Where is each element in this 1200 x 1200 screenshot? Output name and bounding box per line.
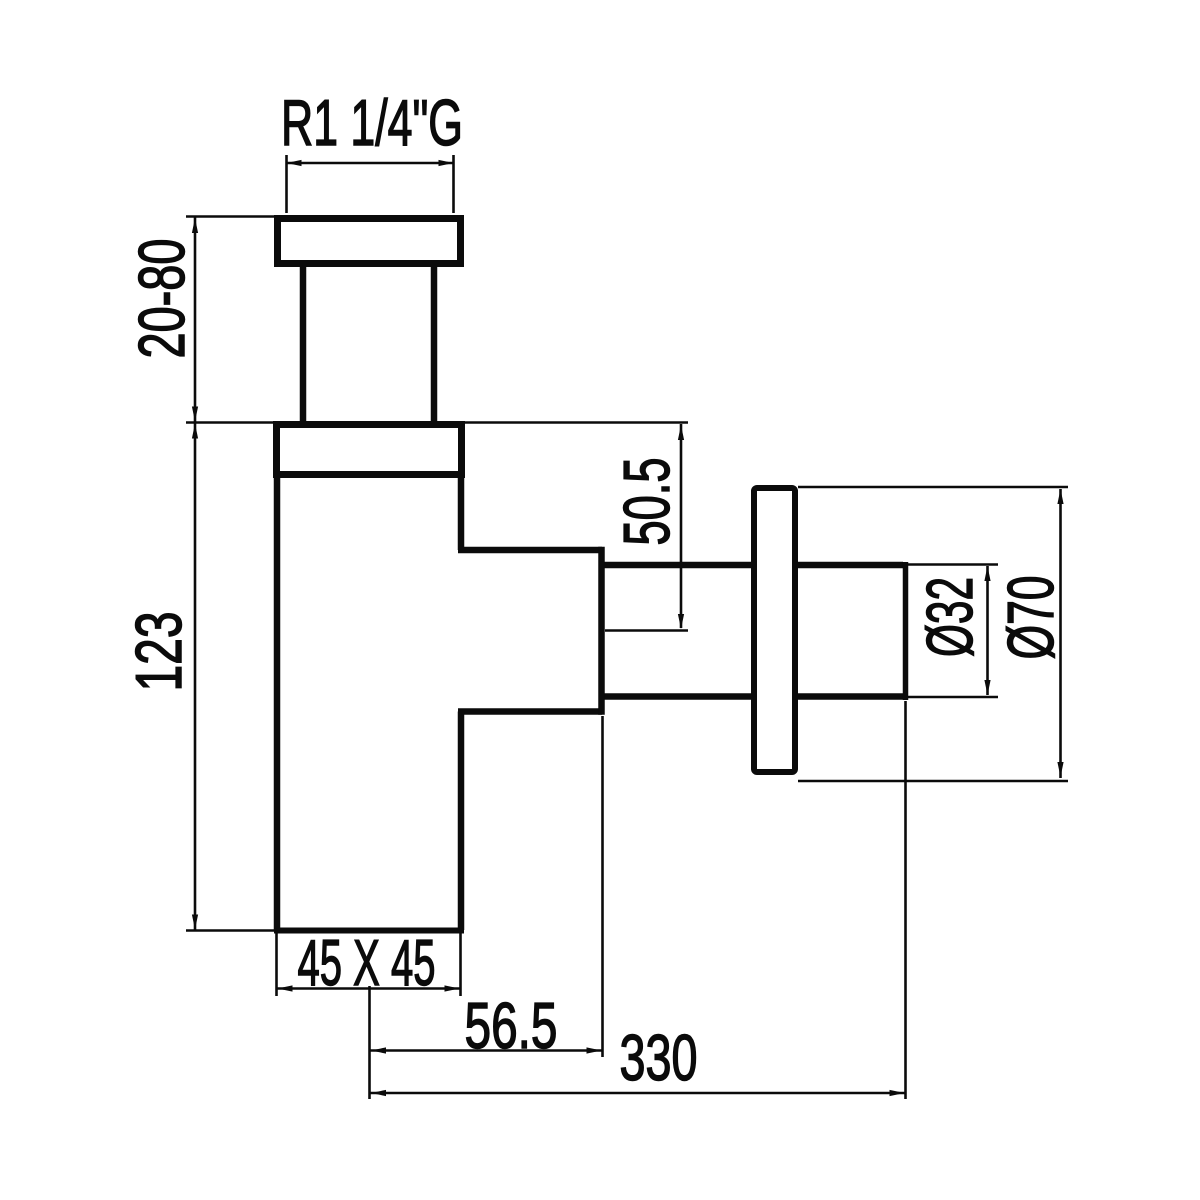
wall flange (escutcheon) — [754, 488, 795, 772]
outlet pipe top edge — [602, 562, 904, 569]
arrow 20-80 down — [192, 407, 198, 422]
svg-text:56.5: 56.5 — [465, 989, 558, 1062]
arrow 50.5 down — [678, 614, 684, 629]
dimension line O70 (vertical) — [1059, 489, 1062, 778]
dimension line 56.5 (horizontal) — [370, 1049, 602, 1052]
svg-text:Ø70: Ø70 — [994, 576, 1067, 660]
extension line pipe bottom (O32 bottom reference) — [908, 696, 998, 699]
body left edge — [274, 474, 281, 930]
extension line body right below (45x45 right reference) — [459, 933, 462, 996]
arrow 45x45 left — [278, 985, 293, 991]
dimension line R1 1/4"G — [287, 162, 454, 165]
extension line wall flange top (O70 top reference) — [798, 486, 1068, 489]
outlet pipe end cap — [903, 562, 909, 700]
arrow 123 down — [192, 915, 198, 930]
arrow 50.5 up — [678, 425, 684, 440]
arrow O32 down — [984, 680, 990, 695]
arrow 56.5 right — [587, 1047, 602, 1053]
body bottom edge — [274, 928, 464, 934]
body right edge upper — [458, 474, 465, 550]
svg-text:20-80: 20-80 — [125, 239, 198, 359]
extension line pipe top (O32 top reference) — [908, 563, 998, 566]
extension tick pipe centerline (50.5 bottom reference) — [605, 629, 688, 632]
arrow R1 left — [287, 160, 302, 166]
top flange (nut) — [278, 219, 461, 264]
outlet pipe bottom edge — [602, 693, 904, 700]
extension line body left below (45x45 left reference) — [275, 933, 278, 996]
arrow 330 right — [890, 1090, 905, 1096]
dimension line 20-80 and 123 (vertical at left) — [194, 217, 197, 930]
arrow O70 up — [1057, 489, 1063, 504]
arrow 123 up — [192, 424, 198, 439]
svg-text:123: 123 — [122, 612, 195, 692]
dimension line O32 (vertical) — [986, 566, 989, 695]
extension line body top (20-80 bottom / 123 top / 50.5 top reference) — [186, 421, 688, 424]
svg-text:R1 1/4"G: R1 1/4"G — [281, 86, 463, 159]
dimension line 50.5 (vertical) — [680, 424, 683, 628]
arrow 45x45 right — [445, 985, 460, 991]
extension line top flange left (20-80 top reference) — [186, 215, 274, 218]
svg-text:45 X 45: 45 X 45 — [298, 926, 436, 999]
arrow 20-80 up — [192, 218, 198, 233]
extension line pipe end below (330 right reference) — [904, 701, 907, 1099]
arrow R1 right — [439, 160, 454, 166]
svg-text:330: 330 — [620, 1021, 698, 1094]
arrow O70 down — [1057, 762, 1063, 777]
body right edge lower — [458, 712, 465, 931]
arrow 330 left — [371, 1090, 386, 1096]
union nut bottom edge — [458, 708, 602, 715]
union nut top edge — [458, 547, 602, 554]
riser pipe right edge — [431, 267, 438, 424]
svg-text:Ø32: Ø32 — [913, 577, 986, 657]
arrow O32 up — [984, 566, 990, 581]
extension line body centerline below (56.5 and 330 left reference) — [368, 986, 371, 1099]
riser pipe left edge — [300, 267, 307, 424]
union nut right face — [598, 547, 605, 715]
extension line body bottom left (123 bottom reference) — [186, 929, 274, 932]
dimension line 330 (horizontal) — [370, 1092, 905, 1095]
dimension line 45x45 (horizontal) — [277, 987, 460, 990]
extension line union right face below (56.5 right reference) — [601, 716, 604, 1057]
extension line R1 thread left — [285, 155, 288, 213]
extension line R1 thread right — [452, 155, 455, 213]
extension line wall flange bottom (O70 bottom reference) — [798, 780, 1068, 783]
svg-text:50.5: 50.5 — [610, 458, 683, 546]
body cap flange — [277, 425, 462, 475]
arrow 56.5 left — [371, 1047, 386, 1053]
